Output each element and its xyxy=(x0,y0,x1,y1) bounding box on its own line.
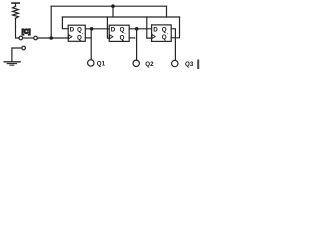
wire Q1-bar stub xyxy=(85,37,90,39)
svg-text:[C]: [C] xyxy=(22,28,31,35)
wire top clock bus xyxy=(51,5,166,7)
wire Q3 lead down xyxy=(171,29,175,61)
wire bus end drop xyxy=(166,6,168,17)
junction dot Q1 xyxy=(90,27,94,31)
wire resistor to clock line xyxy=(16,18,19,38)
wire riser top bus to second bus xyxy=(112,6,114,17)
terminal circle Q3 xyxy=(172,60,178,66)
clock pin U3 xyxy=(152,35,155,39)
wire second bus xyxy=(62,16,179,18)
wire clock line to FF1 clock xyxy=(37,37,68,39)
wire bus drop to D1 xyxy=(62,17,68,29)
wire rail to resistor xyxy=(15,4,17,7)
svg-text:D: D xyxy=(153,26,158,33)
wire clock riser xyxy=(50,6,52,38)
junction dot Q2 xyxy=(135,27,139,31)
terminal circle (clock input right) xyxy=(34,36,38,40)
flip-flop U1 xyxy=(68,25,85,41)
scan edge artifact xyxy=(197,60,199,70)
svg-text:': ' xyxy=(167,32,168,37)
resistor R1 xyxy=(13,6,19,18)
terminal circle (ground input) xyxy=(22,46,26,50)
svg-text:D: D xyxy=(70,27,75,34)
wire Q2 to D3 xyxy=(129,28,151,30)
wire Q3-bar feedback xyxy=(171,17,179,38)
terminal circle Q2 xyxy=(133,60,139,66)
wire drop to FF3 clock xyxy=(147,17,152,38)
wire Q2-bar stub xyxy=(129,37,135,39)
wire drop to FF2 clock xyxy=(107,17,109,38)
clock pin U1 xyxy=(69,35,72,39)
junction dot top bus xyxy=(111,4,115,8)
flip-flop U3 xyxy=(152,25,172,42)
wire Q2 lead down xyxy=(136,29,138,60)
power rail bar xyxy=(11,2,20,4)
wire ground branch xyxy=(12,48,22,61)
terminal circle Q1 xyxy=(88,60,94,66)
junction dot clock line xyxy=(49,36,53,40)
clock pin U2 xyxy=(110,35,113,39)
terminal circle (clock input left) xyxy=(19,36,23,40)
svg-text:': ' xyxy=(125,32,126,37)
svg-text:Q3: Q3 xyxy=(185,61,194,68)
svg-text:': ' xyxy=(82,32,83,37)
wire Q1 lead down xyxy=(90,29,92,60)
wire between clock terminals xyxy=(23,37,34,39)
flip-flop U2 xyxy=(109,25,129,41)
svg-text:Q1: Q1 xyxy=(97,60,106,67)
svg-text:Q2: Q2 xyxy=(145,61,154,68)
ground xyxy=(4,61,20,63)
wire Q1 to D2 xyxy=(85,28,109,30)
svg-text:D: D xyxy=(111,27,116,34)
